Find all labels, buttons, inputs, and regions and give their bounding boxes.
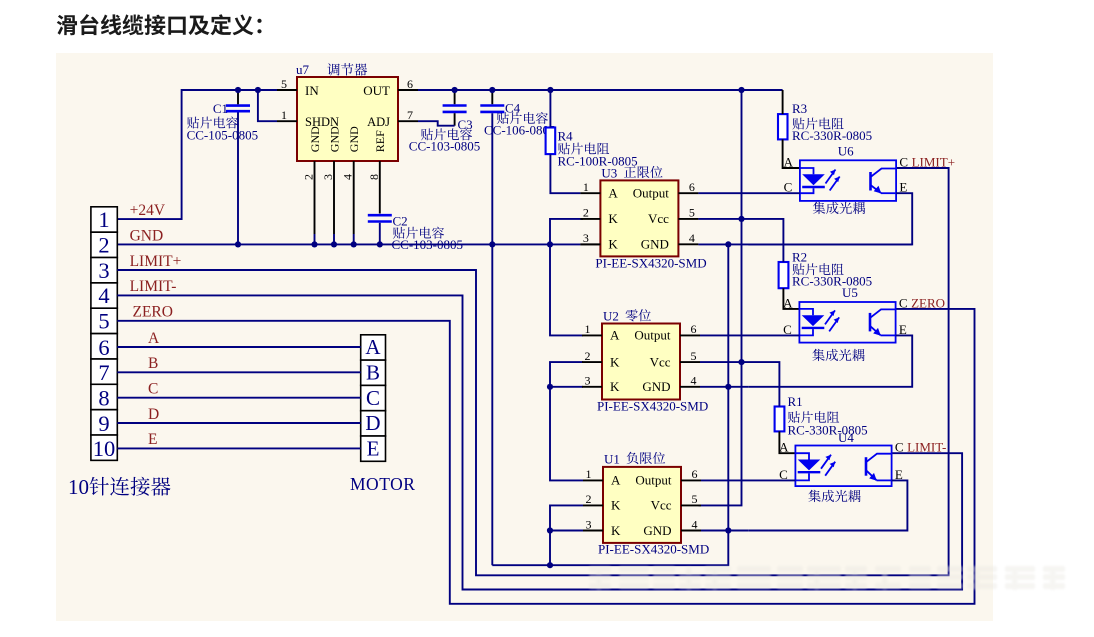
wire net LIMIT- (connector pin 4 to U4 collector) [117, 295, 962, 589]
U6 LED symbol [800, 168, 825, 193]
wire U6 emitter return to GND chain [748, 193, 912, 244]
svg-text:3: 3 [583, 231, 589, 245]
svg-text:1: 1 [98, 207, 109, 232]
svg-text:CC-103-0805: CC-103-0805 [409, 139, 481, 154]
svg-text:R3: R3 [792, 101, 807, 116]
U2 pin number 6 [691, 322, 697, 336]
wire U2 output to U5 cathode [700, 334, 799, 336]
C1 designator [213, 101, 228, 116]
MOTOR pin letter C [366, 386, 380, 410]
U7 pin number 4 (rotated) [341, 174, 355, 180]
svg-text:RC-100R-0805: RC-100R-0805 [558, 154, 638, 169]
U4 label 集成光耦 [808, 490, 860, 502]
svg-text:B: B [148, 355, 158, 372]
U6 pin label C (collector) [899, 155, 908, 170]
net label +24V [130, 202, 166, 219]
svg-text:A: A [783, 295, 793, 310]
C2 type 贴片电容 [393, 227, 444, 239]
wire GND bus from connector pin 2 [117, 243, 580, 245]
junction dots on GND chain [725, 241, 731, 533]
svg-text:LIMIT-: LIMIT- [130, 278, 177, 295]
regulator U7 box 调节器 [297, 77, 398, 161]
C1 type 贴片电容 [187, 117, 238, 129]
svg-text:D: D [148, 406, 159, 423]
U3 pin name Vcc [648, 211, 669, 226]
svg-text:10: 10 [68, 475, 89, 499]
junction dot U2 pin 3 branch [547, 384, 553, 390]
U5 phototransistor symbol [870, 309, 896, 335]
R2 value RC-330R-0805 [792, 273, 872, 288]
connector pin number 4 [98, 283, 109, 308]
svg-text:5: 5 [692, 492, 698, 506]
U2 pin 6 stub [680, 334, 700, 336]
svg-text:4: 4 [98, 283, 109, 308]
svg-text:C: C [899, 295, 908, 310]
U1 pin number 5 [692, 492, 698, 506]
wire U5 emitter return to GND chain [748, 335, 912, 386]
U4 pin label C (LED cathode) [779, 467, 788, 482]
svg-text:3: 3 [586, 517, 592, 531]
connector pin number 3 [98, 258, 109, 283]
svg-text:C1: C1 [213, 101, 228, 116]
svg-text:8: 8 [367, 174, 381, 180]
U5 label 集成光耦 [812, 349, 864, 361]
svg-text:2: 2 [98, 232, 109, 257]
U7 pin 8 line upper [379, 161, 381, 214]
net label LIMIT+ [130, 253, 182, 270]
U7 pin name GND (rotated) [347, 126, 361, 152]
svg-text:GND: GND [641, 237, 669, 252]
svg-text:A: A [148, 330, 160, 347]
U1 pin name GND [643, 523, 671, 538]
svg-text:GND: GND [327, 126, 341, 152]
wire U1 pin3 stub link [550, 530, 583, 532]
opto-interrupter U3 box (正限位) [600, 180, 678, 256]
svg-text:1: 1 [586, 467, 592, 481]
R1 designator [788, 394, 803, 409]
svg-text:PI-EE-SX4320-SMD: PI-EE-SX4320-SMD [598, 542, 709, 557]
U1 pin name K [611, 498, 621, 513]
svg-text:U4: U4 [838, 430, 854, 445]
wire U3 pin 5 to Vcc bus [698, 218, 741, 220]
U3 pin 6 stub [678, 192, 698, 194]
svg-text:Output: Output [633, 186, 670, 201]
svg-text:C: C [148, 381, 158, 398]
U3 pin number 5 [689, 206, 695, 220]
R4 lower lead wire to U3 pin 1 [550, 154, 580, 193]
wire U3 output to U6 cathode [698, 192, 800, 194]
wire ADJ to C3 bottom [418, 121, 455, 126]
capacitor C3 symbol [443, 106, 467, 112]
U1 pin 6 stub [681, 479, 701, 481]
svg-text:LIMIT-: LIMIT- [907, 440, 946, 455]
svg-text:GND: GND [642, 379, 670, 394]
svg-text:6: 6 [689, 180, 695, 194]
U2 pin 4 stub [680, 386, 700, 388]
schematic sheet background [56, 53, 993, 621]
U3 pin number 3 [583, 231, 589, 245]
U7 pin name GND (rotated) [327, 126, 341, 152]
svg-text:R2: R2 [792, 250, 807, 265]
U7 pin number 5 [281, 77, 287, 91]
svg-text:A: A [365, 335, 381, 359]
R4 upper lead wire [549, 90, 551, 128]
svg-text:u7: u7 [296, 62, 310, 77]
R2 feed wire from Vcc bus [742, 219, 784, 262]
svg-text:1: 1 [583, 180, 589, 194]
U5 designator [842, 285, 858, 300]
svg-text:K: K [610, 354, 620, 369]
U2 pin name GND [642, 379, 670, 394]
capacitor C4 symbol [480, 106, 504, 112]
net label GND [130, 227, 164, 244]
U7 pin number 2 (rotated) [302, 174, 316, 180]
U7 designator u7 [296, 62, 310, 77]
svg-text:GND: GND [130, 227, 164, 244]
U5 pin label E (emitter) [899, 322, 907, 337]
U3 part number PI-EE-SX4320-SMD [595, 256, 706, 271]
U2 pin 5 stub [680, 361, 700, 363]
C4 designator [505, 101, 521, 116]
U7 pin number 6 [407, 77, 413, 91]
resistor R2 symbol [779, 262, 789, 288]
capacitor C1 symbol [226, 106, 250, 112]
svg-text:+24V: +24V [130, 202, 166, 219]
svg-text:Output: Output [635, 473, 672, 488]
U7 pin 1 stub [277, 120, 297, 122]
R3 upper lead from +24V rail [782, 90, 784, 114]
R2 lower lead to U5 anode [783, 288, 799, 309]
MOTOR pin letter D [365, 411, 380, 435]
U2 pin 3 stub [582, 386, 602, 388]
U1 pin 2 stub [583, 504, 603, 506]
R3 designator [792, 101, 807, 116]
U3 pin name Output [633, 186, 670, 201]
title 滑台线缆接口及定义： [57, 14, 262, 35]
connector pin number 6 [98, 335, 109, 360]
svg-text:7: 7 [407, 108, 413, 122]
svg-text:RC-330R-0805: RC-330R-0805 [792, 128, 872, 143]
svg-text:C2: C2 [393, 214, 408, 229]
U5 pin label C (collector) [899, 295, 908, 310]
R4 type 贴片电阻 [558, 143, 609, 155]
svg-text:10: 10 [93, 436, 116, 461]
U3 pin 2 stub [580, 218, 600, 220]
wire GND bottom bus [492, 531, 728, 566]
wire B from connector pin 7 to MOTOR [117, 371, 360, 373]
R1 value RC-330R-0805 [788, 422, 868, 437]
U7 pin name GND (rotated) [308, 126, 322, 152]
svg-text:B: B [366, 361, 380, 385]
U2 function label 零位 [626, 309, 651, 321]
net label C (motor phase) [148, 381, 158, 398]
wire E from connector pin 10 to MOTOR [117, 447, 360, 449]
C2 designator [393, 214, 408, 229]
U3 pin 3 stub [580, 243, 600, 245]
svg-text:3: 3 [585, 374, 591, 388]
svg-text:Vcc: Vcc [651, 498, 672, 513]
resistor R1 symbol [775, 407, 785, 432]
R4 value RC-100R-0805 [558, 154, 638, 169]
C4 lower lead wire (GND net down to bottom bus) [491, 113, 493, 565]
wire C from connector pin 8 to MOTOR [117, 397, 360, 399]
svg-text:Vcc: Vcc [650, 354, 671, 369]
wire regulator OUT rail (+24V out) [418, 89, 783, 91]
U7 pin name REF (rotated) [373, 130, 387, 152]
net label B (motor phase) [148, 355, 158, 372]
U7 pin 2 line [314, 161, 316, 244]
U3 pin number 6 [689, 180, 695, 194]
svg-text:K: K [611, 523, 621, 538]
U4 pin label E (emitter) [895, 467, 903, 482]
svg-text:GND: GND [347, 126, 361, 152]
svg-text:1: 1 [281, 108, 287, 122]
R1 type 贴片电阻 [788, 411, 839, 423]
svg-text:U3: U3 [601, 165, 617, 180]
U6 designator [838, 144, 854, 159]
svg-text:PI-EE-SX4320-SMD: PI-EE-SX4320-SMD [595, 256, 706, 271]
svg-text:C: C [366, 386, 380, 410]
10-pin connector body [91, 207, 117, 461]
U1 function label 负限位 [627, 452, 666, 464]
svg-text:6: 6 [691, 322, 697, 336]
U3 pin name GND [641, 237, 669, 252]
R2 designator [792, 250, 807, 265]
U2 pin number 5 [691, 349, 697, 363]
svg-text:A: A [611, 473, 621, 488]
svg-text:3: 3 [321, 174, 335, 180]
svg-text:5: 5 [691, 349, 697, 363]
svg-text:K: K [611, 498, 621, 513]
svg-text:R1: R1 [788, 394, 803, 409]
U6 pin label A [784, 155, 794, 170]
svg-text:Output: Output [634, 328, 671, 343]
wire U2 pin3 stub link [550, 386, 583, 388]
connector pin number 5 [98, 309, 109, 334]
C4 type 贴片电容 [497, 112, 548, 124]
wire U1 pins 2,3 down to GND bottom bus [550, 505, 583, 565]
svg-text:REF: REF [373, 130, 387, 152]
wire U1 pin4 row link [701, 530, 748, 532]
U7 pin number 7 [407, 108, 413, 122]
wire +24V from connector pin 1 up to regulator IN [117, 90, 277, 219]
wire D from connector pin 9 to MOTOR [117, 422, 360, 424]
svg-text:7: 7 [98, 360, 109, 385]
svg-text:R4: R4 [558, 129, 574, 144]
svg-text:CC-105-0805: CC-105-0805 [187, 128, 259, 143]
U2 pin 2 stub [582, 361, 602, 363]
U3 pin 5 stub [678, 218, 698, 220]
wire U2 pin 5 to Vcc bus [700, 361, 742, 363]
U7 pin number 8 (rotated) [367, 174, 381, 180]
svg-text:U6: U6 [838, 144, 854, 159]
C3 value CC-103-0805 [409, 139, 481, 154]
junction dots on Vcc bus [738, 216, 744, 365]
svg-text:MOTOR: MOTOR [350, 474, 415, 494]
svg-text:4: 4 [689, 231, 695, 245]
connector pin number 2 [98, 232, 109, 257]
R1 lower lead to U4 anode [779, 431, 795, 453]
connector pin number 10 [93, 436, 116, 461]
svg-text:1: 1 [585, 322, 591, 336]
svg-text:A: A [608, 186, 618, 201]
svg-text:Vcc: Vcc [648, 211, 669, 226]
wire K-chain from GND bus down to U2 pin 1 [550, 244, 583, 335]
svg-text:6: 6 [98, 335, 109, 360]
svg-text:2: 2 [585, 349, 591, 363]
svg-text:K: K [610, 379, 620, 394]
net label A (motor phase) [148, 330, 160, 347]
U2 pin number 4 [691, 374, 697, 388]
svg-text:2: 2 [302, 174, 316, 180]
wire U4 emitter return to GND chain [748, 480, 907, 530]
U2 part number PI-EE-SX4320-SMD [597, 399, 708, 414]
U1 pin name Vcc [651, 498, 672, 513]
U7 pin 3 line [333, 161, 335, 244]
U3 designator [601, 165, 617, 180]
resistor R4 symbol [546, 128, 556, 155]
label 10针连接器 [68, 475, 170, 499]
wire A from connector pin 6 to MOTOR [117, 346, 360, 348]
C4 value CC-106-0805 [484, 123, 556, 138]
watermark band [589, 566, 1065, 590]
svg-text:K: K [608, 211, 618, 226]
wire U3 pin 2 to GND bus junction [550, 219, 583, 245]
svg-text:GND: GND [643, 523, 671, 538]
U3 pin name K [608, 211, 618, 226]
U1 pin 1 stub [583, 479, 603, 481]
C2 value CC-103-0805 [392, 237, 464, 252]
junction dots on +24V rail [235, 87, 745, 93]
C4 upper lead [491, 90, 493, 104]
U6 pin label C (LED cathode) [784, 180, 793, 195]
svg-text:ZERO: ZERO [133, 304, 173, 321]
U1 designator [604, 451, 620, 466]
svg-text:9: 9 [98, 411, 109, 436]
opto-interrupter U2 box (零位) [602, 324, 680, 400]
svg-text:2: 2 [586, 492, 592, 506]
svg-text:IN: IN [305, 83, 319, 98]
wire U2 pins 2,3 to U1 pin 1 [550, 362, 583, 480]
U6 LED light arrows [826, 170, 840, 191]
svg-text:ADJ: ADJ [367, 115, 390, 129]
C3 designator [458, 117, 473, 132]
wire net ZERO (connector pin 5 to U5 collector) [117, 309, 974, 604]
net label D (motor phase) [148, 406, 159, 423]
junction dot U1 pin 3 branch [547, 527, 553, 533]
U2 pin 1 stub [582, 334, 602, 336]
wire GND chain vertical (U3 pin4 to U2 pin4 to U1 pin4) [727, 244, 729, 530]
svg-text:OUT: OUT [363, 83, 390, 98]
svg-text:E: E [367, 437, 380, 461]
U7 pin number 3 (rotated) [321, 174, 335, 180]
U2 pin name Vcc [650, 354, 671, 369]
resistor R3 symbol [778, 114, 788, 139]
U3 pin number 4 [689, 231, 695, 245]
U1 pin 4 stub [681, 530, 701, 532]
svg-text:U1: U1 [604, 451, 620, 466]
R3 value RC-330R-0805 [792, 128, 872, 143]
MOTOR connector body [361, 335, 386, 462]
U4 pin label C (collector) [895, 440, 904, 455]
net label E (motor phase) [148, 431, 157, 448]
U5 LED light arrows [825, 310, 839, 331]
svg-text:ZERO: ZERO [911, 295, 945, 310]
U3 pin 4 stub [678, 243, 698, 245]
svg-text:D: D [365, 411, 380, 435]
U3 pin 1 stub [580, 192, 600, 194]
svg-text:PI-EE-SX4320-SMD: PI-EE-SX4320-SMD [597, 399, 708, 414]
svg-text:A: A [784, 155, 794, 170]
capacitor C2 symbol [368, 215, 392, 221]
svg-text:RC-330R-0805: RC-330R-0805 [788, 422, 868, 437]
svg-text:8: 8 [98, 386, 109, 411]
svg-text:U5: U5 [842, 285, 858, 300]
U2 pin number 3 [585, 374, 591, 388]
C1 value CC-105-0805 [187, 128, 259, 143]
svg-text:5: 5 [281, 77, 287, 91]
U4 LED symbol [795, 453, 820, 480]
C2 lower lead wire [379, 223, 381, 245]
U1 pin name Output [635, 473, 672, 488]
net label ZERO [133, 304, 173, 321]
U5 net label ZERO [911, 295, 945, 310]
R2 type 贴片电阻 [792, 263, 843, 275]
U7 pin name IN [305, 83, 319, 98]
U7 pin name ADJ [367, 115, 390, 129]
U6 label 集成光耦 [813, 202, 865, 214]
U1 pin name A [611, 473, 621, 488]
label MOTOR [350, 474, 415, 494]
U7 pin 4 line [353, 161, 355, 244]
U1 pin number 6 [692, 467, 698, 481]
U2 designator [603, 309, 619, 324]
junction dots on GND bus [235, 241, 553, 247]
MOTOR pin letter A [365, 335, 381, 359]
svg-text:4: 4 [692, 517, 698, 531]
svg-text:LIMIT+: LIMIT+ [130, 253, 182, 270]
connector pin number 1 [98, 207, 109, 232]
svg-text:K: K [608, 237, 618, 252]
U3 pin number 2 [583, 206, 589, 220]
MOTOR pin letter E [367, 437, 380, 461]
U5 pin label A [783, 295, 793, 310]
svg-text:6: 6 [407, 77, 413, 91]
U2 pin number 2 [585, 349, 591, 363]
U4 pin label A [779, 440, 789, 455]
U4 LED light arrows [821, 455, 835, 476]
U7 pin name OUT [363, 83, 390, 98]
opto-interrupter U1 box (负限位) [603, 467, 681, 543]
U2 pin name K [610, 354, 620, 369]
U6 net label LIMIT+ [912, 155, 955, 170]
U5 LED symbol [799, 309, 824, 336]
svg-text:6: 6 [692, 467, 698, 481]
junction dot on GND bottom bus [547, 562, 553, 568]
wire U1 output to U4 cathode [701, 479, 795, 481]
R1 feed wire from Vcc bus [742, 362, 780, 406]
R3 lower lead to U6 anode [783, 139, 800, 168]
svg-text:2: 2 [583, 206, 589, 220]
U7 pin 7 stub [398, 120, 418, 122]
connector pin number 9 [98, 411, 109, 436]
U3 pin name A [608, 186, 618, 201]
U3 function label 正限位 [624, 166, 663, 178]
U7 name 调节器 [327, 63, 367, 76]
svg-text:3: 3 [98, 258, 109, 283]
connector pin number 8 [98, 386, 109, 411]
svg-text:C: C [895, 440, 904, 455]
